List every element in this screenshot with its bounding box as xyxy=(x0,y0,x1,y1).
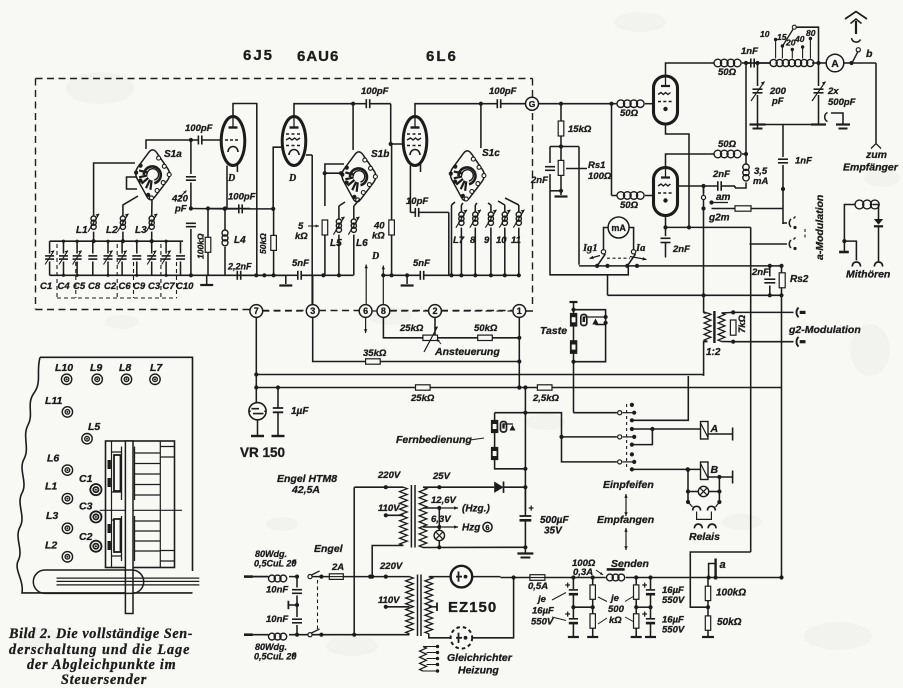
svg-text:6L6: 6L6 xyxy=(426,48,458,65)
svg-text:C9: C9 xyxy=(133,281,146,292)
wire 220V top xyxy=(354,486,403,488)
svg-text:Steuersender: Steuersender xyxy=(61,672,147,688)
svg-text:kΩ: kΩ xyxy=(295,231,308,242)
svg-text:Relais: Relais xyxy=(689,531,720,543)
rotary switch S1b xyxy=(342,152,376,202)
bus cathode xyxy=(666,226,751,228)
svg-text:mA: mA xyxy=(753,176,768,187)
wire node7 down xyxy=(255,318,257,404)
svg-text:80: 80 xyxy=(806,28,816,38)
wire tank left xyxy=(757,63,759,86)
wire Rs2 down xyxy=(781,295,783,577)
wire 6L6 cathode xyxy=(409,166,411,213)
capacitor C8 xyxy=(92,241,94,253)
svg-text:500µF: 500µF xyxy=(540,515,569,526)
svg-text:pF: pF xyxy=(771,96,784,107)
fuse 2A xyxy=(329,574,343,580)
svg-text:16µF: 16µF xyxy=(532,606,554,617)
svg-text:kΩ: kΩ xyxy=(372,231,385,242)
svg-text:L6: L6 xyxy=(356,238,368,249)
wire V4 anode xyxy=(666,63,712,76)
svg-text:1: 1 xyxy=(517,306,522,316)
svg-text:VR 150: VR 150 xyxy=(240,445,285,460)
svg-text:C1: C1 xyxy=(79,473,93,485)
svg-text:derschaltung und die Lage: derschaltung und die Lage xyxy=(9,642,190,658)
svg-text:2nF: 2nF xyxy=(712,169,730,180)
rotary switch S1c xyxy=(450,151,484,201)
svg-text:ø: ø xyxy=(292,559,297,566)
svg-text:100kΩ: 100kΩ xyxy=(196,233,206,259)
coil L1 xyxy=(91,216,96,221)
svg-text:10: 10 xyxy=(496,235,507,246)
svg-text:Heizung: Heizung xyxy=(458,665,499,677)
dashed switch link xyxy=(607,257,630,259)
wire S1a to L3 xyxy=(151,199,153,216)
arrow D up 1 xyxy=(365,265,367,306)
svg-text:C3: C3 xyxy=(79,501,93,513)
capacitor C3 xyxy=(151,241,153,253)
svg-text:a-Modulation: a-Modulation xyxy=(814,195,826,260)
transformer 1:2 core xyxy=(713,311,715,343)
svg-text:B: B xyxy=(711,464,719,476)
capacitor C2 xyxy=(107,241,109,253)
tap switch arm xyxy=(783,29,794,46)
resistor Rs1 xyxy=(558,160,564,175)
svg-text:(Hzg.): (Hzg.) xyxy=(462,504,490,515)
capacitor 16uF a xyxy=(572,578,574,590)
choke 100Ohm xyxy=(573,577,605,579)
dashed jack link xyxy=(804,229,806,240)
resistor 500k c xyxy=(634,585,639,599)
capacitor C4 xyxy=(63,241,65,253)
transformer 1:2 secondary xyxy=(718,313,725,342)
junction rs1 gnd xyxy=(550,190,561,192)
wire pot to 50k xyxy=(438,337,478,339)
bus Ig bus xyxy=(579,265,782,267)
wire to 6AU6 grid xyxy=(273,147,283,209)
node 8 xyxy=(377,305,390,318)
tube PA V5 xyxy=(654,168,678,216)
relay A xyxy=(701,422,709,440)
heater winding xyxy=(420,647,427,672)
svg-text:L11: L11 xyxy=(45,395,62,407)
diode monitor xyxy=(874,219,883,225)
svg-text:7: 7 xyxy=(254,306,259,316)
wire to 6L6 grid xyxy=(391,104,403,144)
bank pole 1 out xyxy=(632,376,688,420)
svg-text:Empfänger: Empfänger xyxy=(843,162,899,174)
wire HT drop xyxy=(524,388,526,512)
wire g2 jack upper xyxy=(733,311,793,313)
svg-text:Engel: Engel xyxy=(314,543,344,555)
terminal C1p xyxy=(90,484,101,495)
svg-text:C2: C2 xyxy=(104,281,117,292)
chassis tap xyxy=(295,603,299,607)
svg-text:6: 6 xyxy=(363,306,368,316)
svg-text:25kΩ: 25kΩ xyxy=(410,393,435,404)
wire V4 cathode xyxy=(666,124,690,227)
svg-text:550V: 550V xyxy=(662,595,685,606)
svg-text:D: D xyxy=(227,173,235,184)
svg-text:2: 2 xyxy=(432,306,437,316)
tube PA V4 xyxy=(654,76,678,124)
drive rod xyxy=(57,578,200,585)
wire G to tubes xyxy=(539,103,612,105)
svg-text:D: D xyxy=(371,251,379,262)
svg-text:L2: L2 xyxy=(106,225,118,236)
terminal L8 xyxy=(121,374,131,384)
cap bank top rail xyxy=(50,240,184,242)
wire S1b contacts xyxy=(339,199,360,206)
wire 25V xyxy=(423,486,494,488)
svg-text:6J5: 6J5 xyxy=(243,47,274,64)
terminal L6p xyxy=(62,465,72,475)
monitor branch xyxy=(844,241,856,260)
svg-text:+: + xyxy=(642,580,647,590)
svg-text:A: A xyxy=(831,58,839,70)
resistor 500k b xyxy=(590,614,595,628)
coil L7 xyxy=(459,212,464,217)
svg-text:25V: 25V xyxy=(432,471,451,482)
tuning cap plates lower xyxy=(122,516,135,561)
bus B+ xyxy=(501,577,530,579)
jack a-mod 2 xyxy=(789,240,791,248)
wire node1 down xyxy=(518,318,520,388)
switch Ig1 xyxy=(601,250,605,254)
node 6 xyxy=(359,305,372,318)
svg-text:100pF: 100pF xyxy=(361,86,389,97)
node 3 xyxy=(306,305,319,318)
node 2 xyxy=(429,305,442,318)
tube EZ150 anode2 xyxy=(429,634,451,638)
svg-text:100kΩ: 100kΩ xyxy=(716,588,746,599)
node 1 xyxy=(513,305,526,318)
wire 6AU6 cathode xyxy=(311,155,313,305)
svg-text:mA: mA xyxy=(611,223,626,233)
svg-text:10nF: 10nF xyxy=(266,614,288,625)
svg-text:D: D xyxy=(288,173,296,184)
capacitor 200pF xyxy=(753,88,763,90)
bank pole 2 out xyxy=(632,429,653,445)
resistor Rs2 xyxy=(779,273,785,288)
terminal C2p xyxy=(90,541,101,552)
fern lower contact xyxy=(491,447,498,460)
choke 50Ohm a1 xyxy=(711,62,714,64)
wire senden loop xyxy=(690,552,750,607)
arrow D up 2 xyxy=(382,266,384,306)
svg-text:L10: L10 xyxy=(55,362,73,374)
svg-text:Ig1: Ig1 xyxy=(582,243,598,254)
tuning shaft xyxy=(125,441,133,614)
svg-text:L5: L5 xyxy=(330,238,342,249)
monitor coil xyxy=(855,200,864,209)
bank pole 3 xyxy=(618,460,622,464)
capacitor 500uF xyxy=(524,487,526,515)
transformer 1:2 primary xyxy=(704,313,711,342)
svg-text:220V: 220V xyxy=(379,561,403,572)
bus key bus xyxy=(608,294,782,296)
wire node8 down xyxy=(383,318,423,338)
svg-text:C1: C1 xyxy=(40,281,52,292)
svg-text:50Ω: 50Ω xyxy=(620,108,639,119)
svg-text:Ia: Ia xyxy=(635,243,645,254)
resistor 100kOhm div xyxy=(705,586,710,600)
diode supply xyxy=(494,482,503,493)
svg-text:1µF: 1µF xyxy=(291,406,309,417)
svg-text:5nF: 5nF xyxy=(413,258,430,269)
bank dashed gang xyxy=(626,404,628,470)
svg-text:Rs1: Rs1 xyxy=(588,160,605,171)
tank coil xyxy=(754,62,771,64)
svg-text:50kΩ: 50kΩ xyxy=(474,323,498,334)
bank pole 3 out xyxy=(632,468,701,470)
wire S1c contacts xyxy=(452,198,519,205)
svg-text:Mithören: Mithören xyxy=(846,269,890,281)
wire taste to bank xyxy=(574,412,617,414)
wire aMod down xyxy=(782,223,784,224)
svg-text:+: + xyxy=(529,503,534,513)
svg-text:220V: 220V xyxy=(377,470,401,481)
svg-text:g2-Modulation: g2-Modulation xyxy=(788,324,861,336)
filter choke bottom xyxy=(269,633,276,640)
wire V5 anode xyxy=(666,154,712,168)
tube 6AU6 V2 xyxy=(282,117,306,166)
relay B xyxy=(701,462,709,480)
svg-text:100pF: 100pF xyxy=(489,86,517,97)
svg-text:L9: L9 xyxy=(90,362,102,374)
svg-text:6: 6 xyxy=(485,523,489,532)
svg-text:L7: L7 xyxy=(150,362,163,374)
filter choke top xyxy=(269,575,276,582)
switch gang dashed xyxy=(317,580,319,629)
resistor 500k d xyxy=(634,614,639,628)
wire 6AU6 anode xyxy=(294,104,353,117)
drive stadium xyxy=(45,570,132,593)
tank taps xyxy=(776,39,811,59)
svg-text:Einpfeifen: Einpfeifen xyxy=(603,479,654,491)
key Taste xyxy=(570,301,578,303)
wire fern mid xyxy=(525,413,617,437)
wire 10pF branch xyxy=(451,205,453,275)
terminal L3p xyxy=(62,523,72,533)
bus HT xyxy=(256,374,703,376)
svg-text:C8: C8 xyxy=(88,281,101,292)
wire 6J5 cathode xyxy=(226,166,228,209)
svg-text:C2: C2 xyxy=(79,531,93,543)
transformer2 primary xyxy=(406,577,414,634)
jack g2 upper xyxy=(796,308,798,318)
svg-text:50Ω: 50Ω xyxy=(718,67,737,78)
resistor 7kOhm xyxy=(730,320,736,335)
svg-text:0,5CuL 20: 0,5CuL 20 xyxy=(254,652,296,662)
svg-text:2A: 2A xyxy=(331,562,344,573)
svg-text:je: je xyxy=(609,593,620,604)
svg-text:7kΩ: 7kΩ xyxy=(737,314,748,333)
svg-text:L5: L5 xyxy=(88,421,100,433)
coil L2 xyxy=(120,216,125,221)
capacitor 16uF c xyxy=(650,578,652,590)
capacitor 2nF cath2 xyxy=(661,237,671,239)
switch Engel top xyxy=(308,575,312,579)
capacitor 420pF xyxy=(190,140,192,174)
svg-text:der Abgleichpunkte im: der Abgleichpunkte im xyxy=(27,657,176,673)
S1a wiper bracket xyxy=(127,177,138,189)
wire 6L6 anode xyxy=(415,104,481,117)
wire t1 prim bottom xyxy=(372,546,403,577)
lamp supply xyxy=(438,508,440,527)
svg-text:1:2: 1:2 xyxy=(706,347,721,358)
svg-text:S1c: S1c xyxy=(482,148,500,159)
svg-text:1nF: 1nF xyxy=(795,156,812,167)
capacitor C9 xyxy=(136,241,138,253)
svg-text:3: 3 xyxy=(310,306,315,316)
wire mains drop xyxy=(353,487,355,635)
wire cathode drop xyxy=(750,227,752,552)
antenna xyxy=(845,12,867,20)
transformer1 secondary xyxy=(419,487,427,547)
terminal C3p xyxy=(90,511,101,522)
svg-text:35V: 35V xyxy=(544,526,563,537)
transformer1 primary xyxy=(400,487,408,545)
node 7 xyxy=(250,305,263,318)
arrow modes xyxy=(625,494,627,505)
svg-text:+: + xyxy=(565,580,570,590)
svg-text:ø: ø xyxy=(292,652,297,659)
bank pole 1 xyxy=(618,411,622,415)
ground 200pF xyxy=(750,123,766,125)
tube 6J5 V1 xyxy=(221,117,245,166)
terminal L10 xyxy=(61,374,71,384)
svg-text:C4: C4 xyxy=(58,281,71,292)
svg-text:Taste: Taste xyxy=(540,325,567,337)
panel outline xyxy=(17,357,192,593)
svg-text:10nF: 10nF xyxy=(266,585,288,596)
rail right segment xyxy=(242,274,286,276)
svg-text:C3: C3 xyxy=(148,281,161,292)
wire arm return xyxy=(550,191,628,275)
terminal a xyxy=(714,559,716,578)
choke 3,5mA xyxy=(743,164,749,170)
coupling link xyxy=(825,113,828,122)
svg-text:b: b xyxy=(866,48,873,60)
svg-text:pF: pF xyxy=(174,204,187,215)
wire S1a to L2 xyxy=(123,196,138,216)
tube VR150 xyxy=(249,403,266,420)
wire g2m resistor xyxy=(712,208,736,210)
switch b xyxy=(856,48,860,52)
wire Rs1 bracket xyxy=(550,147,579,265)
svg-text:zum: zum xyxy=(865,149,887,161)
key filter C xyxy=(581,315,587,326)
dashed enclosure box xyxy=(36,78,533,80)
wire L2 down xyxy=(122,232,124,242)
svg-text:EZ150: EZ150 xyxy=(448,599,497,616)
wire anode join xyxy=(745,63,747,154)
capacitor 2x500pF xyxy=(816,61,820,65)
svg-text:Hzg: Hzg xyxy=(462,523,480,534)
transformer1 core xyxy=(410,485,412,548)
jack a-mod 1 xyxy=(789,219,791,227)
switch Engel bottom xyxy=(308,633,312,637)
mains stub top xyxy=(244,575,253,578)
monitor hooks xyxy=(852,262,860,267)
bus screen xyxy=(256,387,779,389)
svg-text:L2: L2 xyxy=(45,540,57,552)
wire to empfaenger xyxy=(875,63,877,143)
svg-text:Rs2: Rs2 xyxy=(790,274,809,285)
transformer2 core xyxy=(417,575,419,637)
bank pole 2 xyxy=(618,435,622,439)
coil L9 xyxy=(488,212,493,217)
wire node2 down xyxy=(434,318,436,336)
key filter R xyxy=(570,313,577,327)
ground 5nF b xyxy=(406,275,408,284)
svg-text:L1: L1 xyxy=(76,225,88,236)
wire fern bot xyxy=(562,437,617,462)
wire node3 down xyxy=(313,318,366,362)
svg-text:2nF: 2nF xyxy=(672,244,690,255)
svg-text:S1b: S1b xyxy=(371,149,389,160)
svg-text:C6: C6 xyxy=(119,281,132,292)
svg-text:110V: 110V xyxy=(378,595,400,606)
wire S1b top xyxy=(352,104,354,150)
svg-text:am: am xyxy=(716,192,731,203)
ammeter A xyxy=(825,62,827,64)
wire g2 jack lower xyxy=(733,341,793,343)
svg-text:100pF: 100pF xyxy=(228,192,256,203)
svg-text:kΩ: kΩ xyxy=(609,615,622,626)
key lower contact xyxy=(570,340,577,354)
ground 500uF xyxy=(517,552,533,554)
tube 6L6 V3 xyxy=(403,117,427,166)
dashed links pins xyxy=(263,310,513,312)
capacitor C10 xyxy=(180,241,182,253)
terminal L7p xyxy=(150,374,160,384)
svg-text:80Wdg.: 80Wdg. xyxy=(255,549,287,559)
coil L3 xyxy=(149,216,154,221)
svg-text:0,3A: 0,3A xyxy=(573,567,593,578)
svg-text:8: 8 xyxy=(381,306,386,316)
svg-text:2nF: 2nF xyxy=(530,175,548,186)
capacitor C7 xyxy=(165,241,167,253)
ground VR150 xyxy=(257,420,259,436)
wire S1a to L1 xyxy=(94,163,135,216)
capacitor C6 xyxy=(121,241,123,253)
jack g2 lower xyxy=(796,337,798,347)
svg-text:15kΩ: 15kΩ xyxy=(568,124,592,135)
svg-text:G: G xyxy=(529,99,536,109)
svg-text:L4: L4 xyxy=(234,235,246,246)
label zum Empfaenger xyxy=(871,144,881,149)
wire 6J5 anode xyxy=(233,104,257,276)
node G xyxy=(526,97,539,110)
lamp relay xyxy=(687,470,689,492)
terminal L1p xyxy=(62,493,72,503)
choke 50Ohm g1 xyxy=(612,103,618,105)
ground osc rail xyxy=(206,275,208,284)
svg-text:6,3V: 6,3V xyxy=(431,514,451,525)
fern filter C xyxy=(501,422,507,433)
svg-text:9: 9 xyxy=(484,235,490,246)
fern contact arrow xyxy=(510,425,516,431)
tuning cap plates upper xyxy=(122,447,135,501)
choke 50Ohm g2 xyxy=(612,195,618,197)
svg-text:10pF: 10pF xyxy=(406,196,428,207)
svg-text:+: + xyxy=(642,609,647,619)
wire S1c top xyxy=(480,104,482,148)
ground rail mid xyxy=(285,275,287,284)
svg-text:2,5kΩ: 2,5kΩ xyxy=(532,393,559,404)
